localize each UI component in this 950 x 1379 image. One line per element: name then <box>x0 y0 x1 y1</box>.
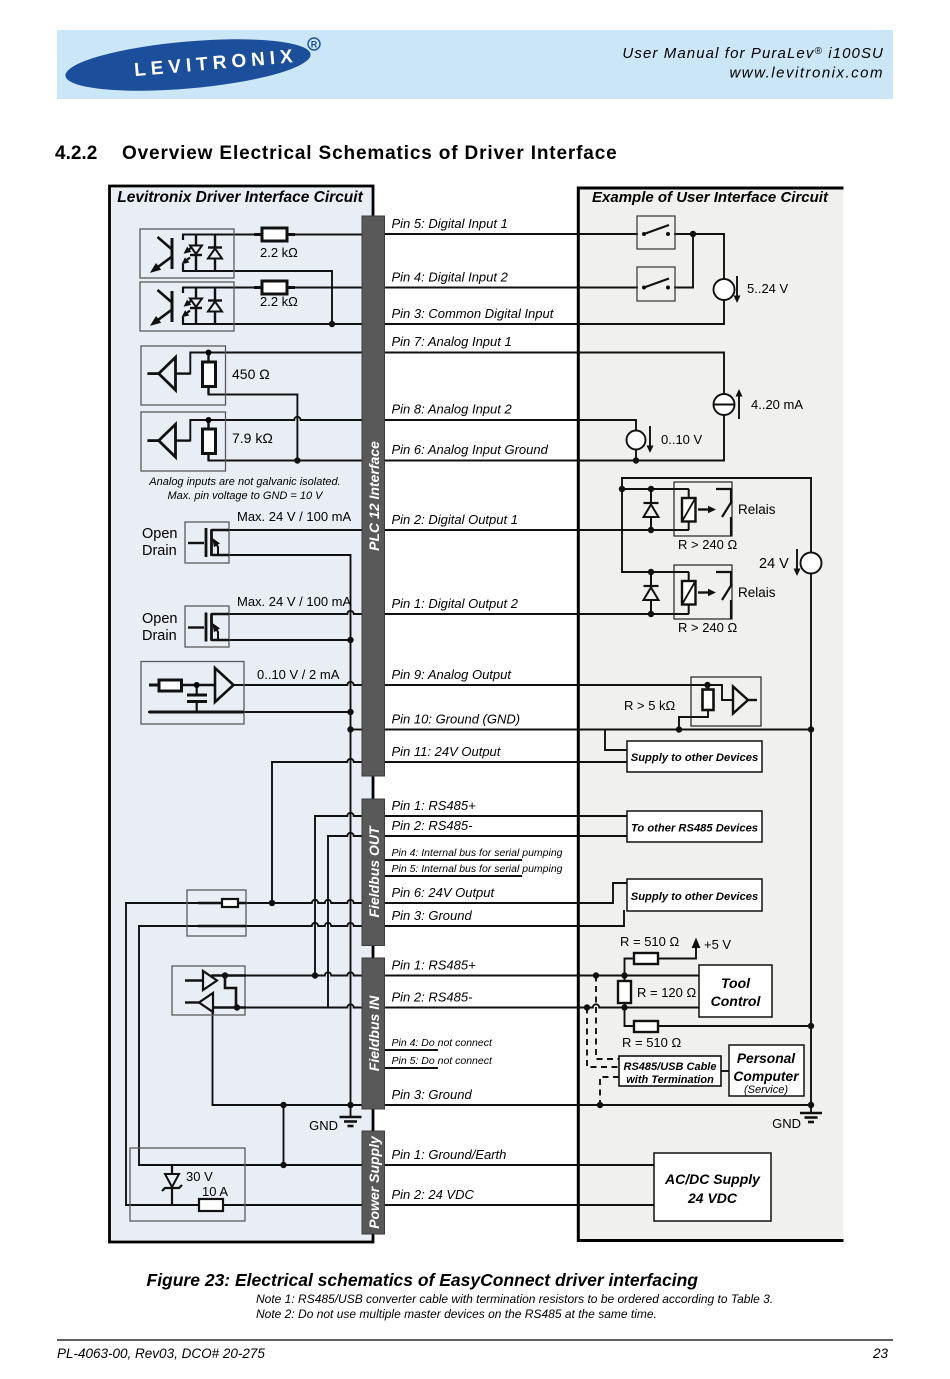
svg-text:Fieldbus IN: Fieldbus IN <box>366 995 382 1071</box>
wire OD1 source to GND rail <box>212 554 351 556</box>
Levitronix logo ellipse <box>63 31 312 99</box>
junction right rail bottom <box>808 1102 814 1108</box>
junction right rail gnd <box>808 726 814 732</box>
wire FO pin5 internal bus stub <box>384 875 521 877</box>
svg-text:Pin 5: Do not connect: Pin 5: Do not connect <box>392 1055 493 1067</box>
analog input buffer A2 <box>141 412 226 471</box>
svg-text:PLC 12 Interface: PLC 12 Interface <box>366 441 382 551</box>
svg-text:Levitronix Driver Interface Ci: Levitronix Driver Interface Circuit <box>117 189 363 206</box>
junction receiver gnd <box>676 726 682 732</box>
wire pin11 24V output (left, hop over rail) <box>272 759 362 762</box>
svg-text:Control: Control <box>711 993 762 1009</box>
svg-text:0..10 V: 0..10 V <box>661 432 703 447</box>
wire pin1 label line + right to relay 2 <box>384 613 688 615</box>
wire pin11 label line + right to supply box 1 <box>384 761 627 763</box>
svg-text:Pin 2: RS485-: Pin 2: RS485- <box>392 990 474 1005</box>
current source 4..20mA <box>714 394 735 415</box>
svg-text:4.2.2: 4.2.2 <box>55 143 97 164</box>
junction diode2 bottom <box>648 611 654 617</box>
wire GND bus vertical to power supply <box>138 926 140 1165</box>
junction transceiver top <box>222 972 228 978</box>
svg-text:4..20 mA: 4..20 mA <box>751 397 803 412</box>
svg-text:Pin 2: Digital Output 1: Pin 2: Digital Output 1 <box>392 512 518 527</box>
logo registered mark <box>308 38 320 50</box>
switch S2 digital input 2 <box>637 267 675 301</box>
wire pin10 label line + right ground rail <box>384 729 811 731</box>
wire pin6 analog input ground (left) <box>209 460 363 462</box>
relay 1 branch <box>622 488 688 490</box>
R120 leads <box>624 976 626 1008</box>
resistor R1 2.2k <box>262 228 287 241</box>
junction pin10 ground <box>347 726 353 732</box>
optocoupler U2 (digital input 2) <box>140 282 234 331</box>
svg-text:0..10 V / 2 mA: 0..10 V / 2 mA <box>257 667 340 682</box>
junction dashed RS485- <box>584 1004 590 1010</box>
svg-text:Note 2: Do not use multiple ma: Note 2: Do not use multiple master devic… <box>256 1307 657 1321</box>
RS485 transceiver block <box>172 966 246 1015</box>
wire pin5 digital input 1 (opto1 to bar) <box>183 234 362 236</box>
svg-text:Pin 3: Ground: Pin 3: Ground <box>392 908 473 923</box>
svg-text:Pin 5: Digital Input 1: Pin 5: Digital Input 1 <box>392 216 508 231</box>
svg-text:Pin 2: 24 VDC: Pin 2: 24 VDC <box>392 1187 475 1202</box>
wire fieldbus out pin1 RS485+ (left, hop over rail) <box>315 813 362 976</box>
svg-text:GND: GND <box>309 1118 338 1133</box>
EMC filter block with fuse F1 <box>187 890 246 936</box>
resistor R=120 termination <box>618 981 631 1003</box>
svg-text:24 V: 24 V <box>759 556 789 572</box>
wire AI1 ground path with vertical <box>209 395 298 461</box>
wire fieldbus out pin6 24V (left, hops over three verticals) <box>126 900 362 903</box>
open drain MOSFET Q2 <box>185 606 229 647</box>
svg-text:Pin 6: 24V Output: Pin 6: 24V Output <box>392 885 496 900</box>
svg-text:Supply to other Devices: Supply to other Devices <box>631 752 758 764</box>
analog output receiver block <box>691 677 761 726</box>
wire ground drop to power supply pin1 <box>283 1105 285 1165</box>
junction 0..10V gnd <box>633 457 639 463</box>
svg-text:Relais: Relais <box>738 502 776 517</box>
svg-text:Relais: Relais <box>738 585 776 600</box>
wire gnd branch to supply box 1 <box>605 730 627 751</box>
svg-text:R > 240 Ω: R > 240 Ω <box>678 537 738 552</box>
svg-text:Pin 11: 24V Output: Pin 11: 24V Output <box>392 744 502 759</box>
arrow +5V <box>692 938 701 949</box>
junction R120 bottom <box>621 1004 627 1010</box>
R510-2 leads <box>625 1008 812 1027</box>
junction R120 top <box>621 972 627 978</box>
svg-text:Computer: Computer <box>733 1069 799 1084</box>
wire pin7 label line + right to 4..20mA source <box>384 353 724 461</box>
svg-text:Pin 2: RS485-: Pin 2: RS485- <box>392 818 474 833</box>
svg-text:R = 510 Ω: R = 510 Ω <box>620 934 680 949</box>
wire PS pin1 label line + right to AC/DC supply <box>384 1164 654 1166</box>
svg-text:(Service): (Service) <box>744 1084 788 1096</box>
svg-text:Power Supply: Power Supply <box>366 1135 382 1229</box>
wire FO pin1 label line + right to RS485 devices box <box>384 815 627 817</box>
wire fieldbus out pin2 RS485- (left, hop over rail) <box>328 833 362 1008</box>
svg-text:Pin 8: Analog Input 2: Pin 8: Analog Input 2 <box>392 402 513 417</box>
svg-text:Drain: Drain <box>142 628 177 644</box>
optocoupler U1 (digital input 1) <box>140 229 234 278</box>
wire 5..24V source vertical <box>723 234 725 324</box>
svg-text:2.2 kΩ: 2.2 kΩ <box>260 294 298 309</box>
svg-text:Open: Open <box>142 611 177 627</box>
wire pin2 digital output 1 drain (left) <box>212 529 363 531</box>
svg-text:Overview Electrical Schematics: Overview Electrical Schematics of Driver… <box>122 143 618 164</box>
wire pin10 stub bar to rail <box>351 729 363 731</box>
wire FO pin3 label line + right step to supply box 2 <box>384 911 624 926</box>
svg-text:Pin 1: RS485+: Pin 1: RS485+ <box>392 798 477 813</box>
box tool control <box>699 965 772 1017</box>
relay 1 left vertical <box>621 478 623 572</box>
wire 24V feed vertical to filter <box>271 762 273 903</box>
svg-text:Pin 3: Ground: Pin 3: Ground <box>392 1087 473 1102</box>
junction RS485+ in <box>312 972 318 978</box>
wire AO block ground to rail <box>149 711 351 713</box>
voltage source 0..10V <box>627 431 646 450</box>
svg-text:2.2 kΩ: 2.2 kΩ <box>260 245 298 260</box>
svg-text:24 VDC: 24 VDC <box>687 1190 738 1206</box>
svg-text:Pin 10: Ground (GND): Pin 10: Ground (GND) <box>392 712 521 727</box>
wire pin1 digital output 2 drain (left, hop over GND rail) <box>212 611 363 614</box>
svg-text:with Termination: with Termination <box>626 1074 714 1086</box>
relay K1 <box>644 482 733 536</box>
voltage source 5..24V <box>714 279 735 300</box>
svg-text:Pin 1: RS485+: Pin 1: RS485+ <box>392 958 477 973</box>
junction gnd drop top <box>280 1102 286 1108</box>
svg-text:23: 23 <box>872 1346 889 1361</box>
wire pin9 analog output (left, hop over GND rail) <box>233 682 362 685</box>
relay K2 <box>644 565 733 619</box>
svg-text:RS485/USB Cable: RS485/USB Cable <box>624 1061 717 1073</box>
svg-text:Personal: Personal <box>737 1051 796 1066</box>
node junction switches <box>692 234 694 288</box>
relay 1 top rail <box>622 477 811 479</box>
resistor R=510 top <box>634 953 658 964</box>
svg-text:Supply to other Devices: Supply to other Devices <box>631 891 758 903</box>
left panel: Levitronix Driver Interface Circuit <box>110 186 374 1242</box>
svg-text:R = 120 Ω: R = 120 Ω <box>637 985 697 1000</box>
wire fieldbus in pin2 RS485- (left, hop over rail) <box>213 1004 362 1007</box>
box supply to other devices 2 <box>627 879 762 911</box>
svg-text:Max. 24 V / 100 mA: Max. 24 V / 100 mA <box>237 594 351 609</box>
Power Supply connector bar <box>362 1131 385 1234</box>
svg-text:GND: GND <box>772 1116 801 1131</box>
internal GND rail <box>350 555 352 1105</box>
svg-text:Pin 7: Analog Input 1: Pin 7: Analog Input 1 <box>392 334 512 349</box>
PLC 12 Interface connector bar <box>362 216 385 776</box>
svg-text:7.9 kΩ: 7.9 kΩ <box>232 430 273 446</box>
box supply to other devices 1 <box>627 741 762 772</box>
resistor R2 2.2k <box>262 281 287 294</box>
wire pin5 label line + right panel to switch S1 <box>384 233 724 235</box>
header band <box>57 30 893 99</box>
wire pin3 common digital input (left) <box>183 323 362 325</box>
junction 24V filter <box>269 900 275 906</box>
GND symbol right <box>800 1105 822 1122</box>
svg-text:+5 V: +5 V <box>704 937 731 952</box>
wire pin8 analog input 2 (left, hop over AI1 gnd) <box>190 417 362 441</box>
junction diode1 top <box>648 486 654 492</box>
svg-text:Drain: Drain <box>142 543 177 559</box>
svg-text:Pin 9: Analog Output: Pin 9: Analog Output <box>392 667 513 682</box>
box RS485/USB cable <box>619 1056 721 1086</box>
right panel: Example of User Interface Circuit <box>578 188 844 1241</box>
svg-text:Pin 4: Internal bus for serial: Pin 4: Internal bus for serial pumping <box>392 847 563 859</box>
wire pin8 label line + right to 0..10V source <box>384 420 636 461</box>
svg-text:R > 5 kΩ: R > 5 kΩ <box>624 698 676 713</box>
wire FI pin5 do-not-connect stub <box>384 1067 437 1069</box>
wire pin4 label line + right panel to switch S2 <box>384 287 693 289</box>
svg-text:R > 240 Ω: R > 240 Ω <box>678 620 738 635</box>
dashed wire RS485- to USB cable <box>587 1008 619 1068</box>
svg-text:User Manual for PuraLev® i100S: User Manual for PuraLev® i100SU <box>622 45 884 62</box>
junction dashed gnd <box>597 1102 603 1108</box>
junction gnd rail bottom <box>347 1102 353 1108</box>
svg-text:Tool: Tool <box>721 975 751 991</box>
svg-text:Example of User Interface Circ: Example of User Interface Circuit <box>592 189 829 206</box>
svg-text:Pin 1: Ground/Earth: Pin 1: Ground/Earth <box>392 1147 507 1162</box>
wire pin7 analog input 1 (left) <box>190 353 362 374</box>
wire FI pin3 label line + right panel ground <box>384 1104 811 1106</box>
wire pin2 label line + right to relay 1 <box>384 529 688 531</box>
wire pin3 label line + right panel return <box>384 323 724 325</box>
GND symbol left <box>340 1105 362 1126</box>
open drain MOSFET Q1 <box>185 522 229 563</box>
voltage source 24V <box>801 553 822 574</box>
wire PS pin2 24VDC (left) <box>126 1204 362 1206</box>
Fieldbus IN connector bar <box>362 958 385 1109</box>
wire FI pin3 ground (left) <box>213 1104 363 1106</box>
svg-text:Max. 24 V / 100 mA: Max. 24 V / 100 mA <box>237 509 351 524</box>
svg-text:Pin 6: Analog Input Ground: Pin 6: Analog Input Ground <box>392 442 549 457</box>
junction analog ground <box>294 457 300 463</box>
wire pin9 label line + right to receiver block <box>384 685 733 700</box>
wire FI pin2 label line + right (hop over dashed) to tool control <box>384 1004 699 1007</box>
dashed wire RS485+ to USB cable <box>596 976 619 1060</box>
power supply protection block <box>130 1148 245 1221</box>
box AC/DC supply <box>654 1153 771 1221</box>
switch S1 digital input 1 <box>637 216 675 249</box>
svg-text:Pin 4: Digital Input 2: Pin 4: Digital Input 2 <box>392 270 509 285</box>
Fieldbus OUT connector bar <box>362 799 385 946</box>
wire pin6 label line + right side <box>384 460 724 462</box>
junction AO ground <box>347 709 353 715</box>
wire fieldbus out pin3 ground (left, hops over three verticals) <box>139 923 362 926</box>
wire PS pin2 label line + right to AC/DC supply <box>384 1204 654 1206</box>
svg-text:450 Ω: 450 Ω <box>232 366 270 382</box>
footer rule <box>57 1339 893 1341</box>
svg-text:www.levitronix.com: www.levitronix.com <box>729 65 884 82</box>
junction diode2 top <box>648 569 654 575</box>
svg-text:R: R <box>311 40 318 50</box>
arrow down 5..24V <box>736 276 738 298</box>
junction diode1 bottom <box>648 527 654 533</box>
analog input buffer A1 <box>141 346 226 405</box>
wire FO pin6 label line + right step to supply box 2 <box>384 883 627 903</box>
svg-text:PL-4063-00, Rev03, DCO# 20-275: PL-4063-00, Rev03, DCO# 20-275 <box>57 1346 265 1361</box>
wire FI pin4 do-not-connect stub <box>384 1049 437 1051</box>
svg-text:Analog inputs are not galvanic: Analog inputs are not galvanic isolated. <box>148 476 340 488</box>
dashed wire USB cable ground <box>600 1077 619 1105</box>
svg-text:Open: Open <box>142 526 177 542</box>
24V source rail right <box>810 478 812 1105</box>
wire fieldbus in pin1 RS485+ (left, hops over x328 and rail) <box>212 972 362 975</box>
svg-text:Pin 5: Internal bus for serial: Pin 5: Internal bus for serial pumping <box>392 863 563 875</box>
box to other RS485 devices <box>627 811 762 842</box>
analog output driver block <box>141 662 244 725</box>
dashed service cable wires <box>587 976 619 1106</box>
svg-text:Pin 3: Common Digital Input: Pin 3: Common Digital Input <box>392 306 555 321</box>
svg-text:To other RS485 Devices: To other RS485 Devices <box>631 823 758 835</box>
svg-text:Figure 23: Electrical schemati: Figure 23: Electrical schematics of Easy… <box>147 1270 699 1290</box>
wire OD2 source to GND rail <box>212 639 351 641</box>
svg-text:Max. pin voltage to GND = 10 V: Max. pin voltage to GND = 10 V <box>168 490 325 502</box>
wire pin4 digital input 2 (opto2 to bar) <box>183 287 362 289</box>
junction relay1 rail <box>619 486 625 492</box>
wire 24V bus vertical to power supply <box>125 903 127 1205</box>
box personal computer <box>729 1045 804 1096</box>
junction switches common <box>690 231 696 237</box>
wire FI pin1 label line + right to tool control <box>384 975 699 977</box>
arrow down 24V <box>796 549 798 571</box>
svg-text:Note 1: RS485/USB converter ca: Note 1: RS485/USB converter cable with t… <box>256 1292 773 1306</box>
arrow up 4..20mA <box>738 394 740 419</box>
junction receiver input <box>704 682 710 688</box>
svg-text:R = 510 Ω: R = 510 Ω <box>622 1035 682 1050</box>
svg-text:AC/DC Supply: AC/DC Supply <box>664 1171 761 1187</box>
arrow down 0..10V <box>649 426 651 448</box>
wire FO pin4 internal bus stub <box>384 859 521 861</box>
junction gnd drop bottom <box>280 1162 286 1168</box>
resistor R=510 bottom <box>634 1021 658 1032</box>
relay 2 branch <box>622 571 688 573</box>
wire transceiver ground vertical <box>212 1011 214 1105</box>
svg-text:30 V: 30 V <box>186 1169 213 1184</box>
junction opto common <box>329 321 335 327</box>
wire PS pin1 ground/earth (left) <box>139 1164 362 1166</box>
wire FO pin2 label line + right to RS485 devices box <box>384 835 627 837</box>
receiver block ground path <box>679 710 708 730</box>
svg-text:5..24 V: 5..24 V <box>747 281 789 296</box>
junction dashed RS485+ <box>593 972 599 978</box>
junction OD2 source <box>347 637 353 643</box>
wire opto1 bottom rail to vertical <box>183 271 332 324</box>
svg-text:Pin 4: Do not connect: Pin 4: Do not connect <box>392 1037 493 1049</box>
wire link cable to PC <box>721 1070 729 1072</box>
svg-text:Fieldbus OUT: Fieldbus OUT <box>366 825 382 917</box>
junction transceiver bottom <box>234 1004 240 1010</box>
svg-text:Pin 1: Digital Output 2: Pin 1: Digital Output 2 <box>392 596 519 611</box>
svg-text:10 A: 10 A <box>202 1184 228 1199</box>
R510-1 leads <box>625 947 697 976</box>
junction R510-2 rail <box>808 1023 814 1029</box>
